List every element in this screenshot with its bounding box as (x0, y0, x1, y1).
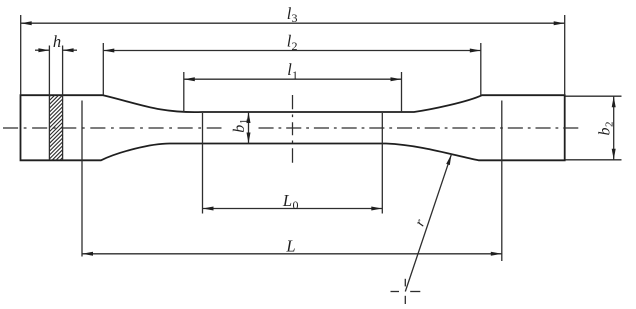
svg-text:2: 2 (604, 122, 616, 128)
svg-text:b: b (597, 128, 614, 136)
svg-text:0: 0 (293, 198, 299, 212)
svg-text:b: b (231, 125, 248, 133)
svg-text:1: 1 (238, 119, 250, 125)
svg-text:L: L (282, 191, 292, 210)
svg-text:L: L (285, 237, 295, 256)
svg-text:1: 1 (292, 68, 298, 82)
svg-text:3: 3 (292, 11, 298, 25)
svg-text:h: h (53, 32, 61, 51)
svg-text:2: 2 (292, 39, 298, 53)
